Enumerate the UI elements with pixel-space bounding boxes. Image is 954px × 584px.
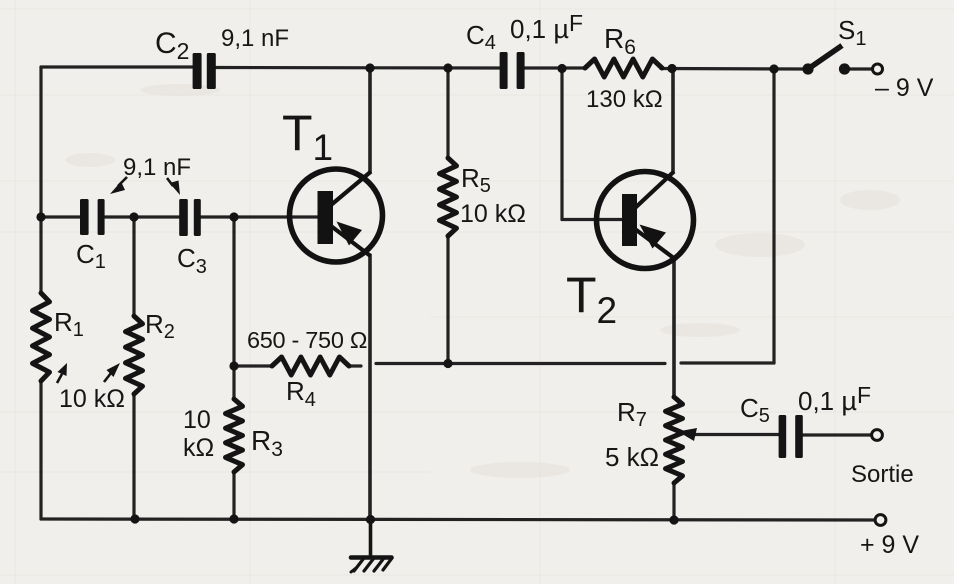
wire bottom +9V rail: [41, 519, 874, 520]
resistor R6: [585, 59, 662, 77]
svg-text:5 kΩ: 5 kΩ: [605, 442, 659, 472]
svg-text:9,1 nF: 9,1 nF: [123, 154, 191, 181]
wire -9V feed vertical: [772, 69, 775, 363]
capacitor C5: [779, 415, 803, 458]
wire top rail R6 to switch S1: [661, 67, 806, 71]
wire top rail C4 to R6: [525, 66, 586, 69]
transistor T2: [597, 172, 694, 269]
wire top rail middle (C2 to C4): [216, 66, 499, 70]
wire C5 to Sortie terminal: [803, 433, 871, 436]
junction node 5: [443, 63, 452, 72]
junction node 12: [229, 514, 238, 523]
svg-text:10 kΩ: 10 kΩ: [460, 200, 526, 228]
junction node 8: [769, 64, 778, 73]
wire R4 right stub: [349, 364, 361, 367]
wire T1 collector vertical: [368, 68, 372, 173]
svg-text:9,1 nF: 9,1 nF: [221, 25, 289, 52]
wire top rail left (C2 row): [41, 65, 193, 68]
capacitor C1: [80, 199, 105, 235]
junction node 1: [36, 212, 45, 221]
wire left vertical rail upper: [39, 67, 42, 293]
wire R7 bottom to rail: [672, 483, 675, 520]
annotation arrow to R1: [57, 363, 67, 383]
svg-text:Sortie: Sortie: [851, 461, 914, 488]
potentiometer R7: [666, 397, 683, 483]
terminal -9V: [873, 64, 883, 74]
svg-text:650 - 750 Ω: 650 - 750 Ω: [247, 327, 367, 353]
wire T2 emitter vertical to R7: [672, 258, 676, 397]
svg-text:kΩ: kΩ: [183, 434, 214, 462]
terminal +9V: [875, 515, 886, 526]
switch S1: [802, 46, 850, 75]
junction node 10: [443, 359, 452, 368]
svg-text:– 9 V: – 9 V: [875, 74, 934, 102]
junction node 14: [669, 515, 678, 524]
transistor T1: [290, 169, 383, 262]
wire left vertical rail lower: [39, 381, 42, 519]
wire C1 to C3: [105, 215, 179, 218]
wire R7 wiper to C5: [694, 433, 779, 436]
wire R3 branch lower: [232, 472, 235, 519]
resistor R1: [33, 293, 50, 381]
wire R2 branch upper: [132, 217, 135, 316]
terminal Sortie: [872, 430, 883, 441]
junction node 2: [129, 212, 138, 221]
svg-text:130 kΩ: 130 kΩ: [586, 86, 663, 113]
capacitor C3: [179, 199, 201, 236]
wire C4 node to T2 base vertical: [560, 69, 563, 220]
junction node 7: [667, 64, 676, 73]
resistor R5: [440, 158, 457, 236]
junction node 9: [229, 361, 238, 370]
wire S1 to -9V terminal: [849, 67, 872, 70]
annotation arrow to R2: [104, 363, 120, 382]
wire T1 emitter vertical to bottom rail: [368, 255, 372, 519]
ground: [351, 520, 392, 573]
wire C1 row left: [41, 215, 80, 218]
faint scan smudges: [65, 84, 900, 478]
junction node 13: [366, 515, 375, 524]
wire R3 branch upper: [232, 217, 235, 399]
capacitor C2: [193, 53, 216, 89]
junction node 11: [130, 514, 139, 523]
junction node 6: [557, 64, 566, 73]
wire T2 collector vertical: [671, 69, 675, 173]
resistor R4: [272, 357, 349, 375]
wire C3 to T1 base: [201, 215, 318, 218]
wire -9V distribution row right part: [681, 361, 774, 364]
wire R2 branch lower: [132, 394, 135, 519]
svg-text:10: 10: [183, 406, 211, 434]
wire R5 branch upper: [446, 68, 449, 158]
annotation arrow to C1: [110, 177, 127, 194]
junction node 3: [229, 212, 238, 221]
wire R4 left stub: [234, 364, 272, 367]
wire T2 base horizontal: [562, 218, 622, 221]
capacitor C4: [500, 52, 525, 89]
wire -9V distribution row: [376, 362, 665, 365]
wiper arrow R7: [678, 428, 697, 441]
svg-text:10 kΩ: 10 kΩ: [59, 385, 125, 413]
svg-text:+ 9 V: + 9 V: [860, 531, 919, 559]
resistor R3: [226, 399, 243, 472]
junction node 4: [365, 63, 374, 72]
wire R5 branch lower: [446, 236, 449, 364]
resistor R2: [126, 316, 143, 394]
annotation arrow to C3: [167, 178, 180, 195]
